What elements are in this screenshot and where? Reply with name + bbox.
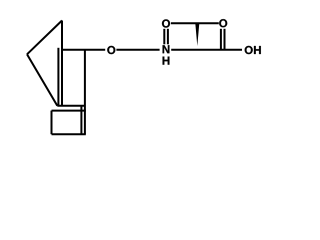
- node O ether: [107, 46, 115, 54]
- wire N=O double bond line 2: [167, 29, 169, 45]
- node O top right carbonyl: [219, 19, 227, 27]
- wire cage vertical double-bond partner: [57, 48, 59, 106]
- wire cage to ether O: [62, 49, 105, 51]
- wire triangle upper edge: [27, 21, 62, 55]
- node H of OH: [254, 46, 261, 54]
- node O of OH: [245, 46, 253, 54]
- wire ether O to N: [116, 49, 159, 51]
- wire square top edge: [52, 110, 86, 112]
- wire C=O double bond line 2: [224, 29, 226, 50]
- wire square bottom edge: [52, 133, 86, 135]
- node N: [163, 45, 170, 53]
- wire triangle lower edge: [27, 54, 57, 106]
- wire C=O double bond line 1: [220, 29, 222, 50]
- wire cage middle horizontal: [57, 105, 85, 107]
- node H of NH: [163, 57, 170, 65]
- wire cage long right vertical: [84, 50, 86, 135]
- wire N to carboxyl chain: [171, 49, 242, 51]
- wire square inner double-bond line: [80, 106, 82, 134]
- wire cage vertical main: [61, 21, 63, 106]
- wire square left edge: [51, 111, 53, 135]
- wire top O-C-O horizontal: [171, 22, 219, 24]
- node O above N: [162, 19, 170, 27]
- wire N=O double bond line 1: [163, 29, 165, 45]
- wedge stereo bond: [195, 23, 199, 46]
